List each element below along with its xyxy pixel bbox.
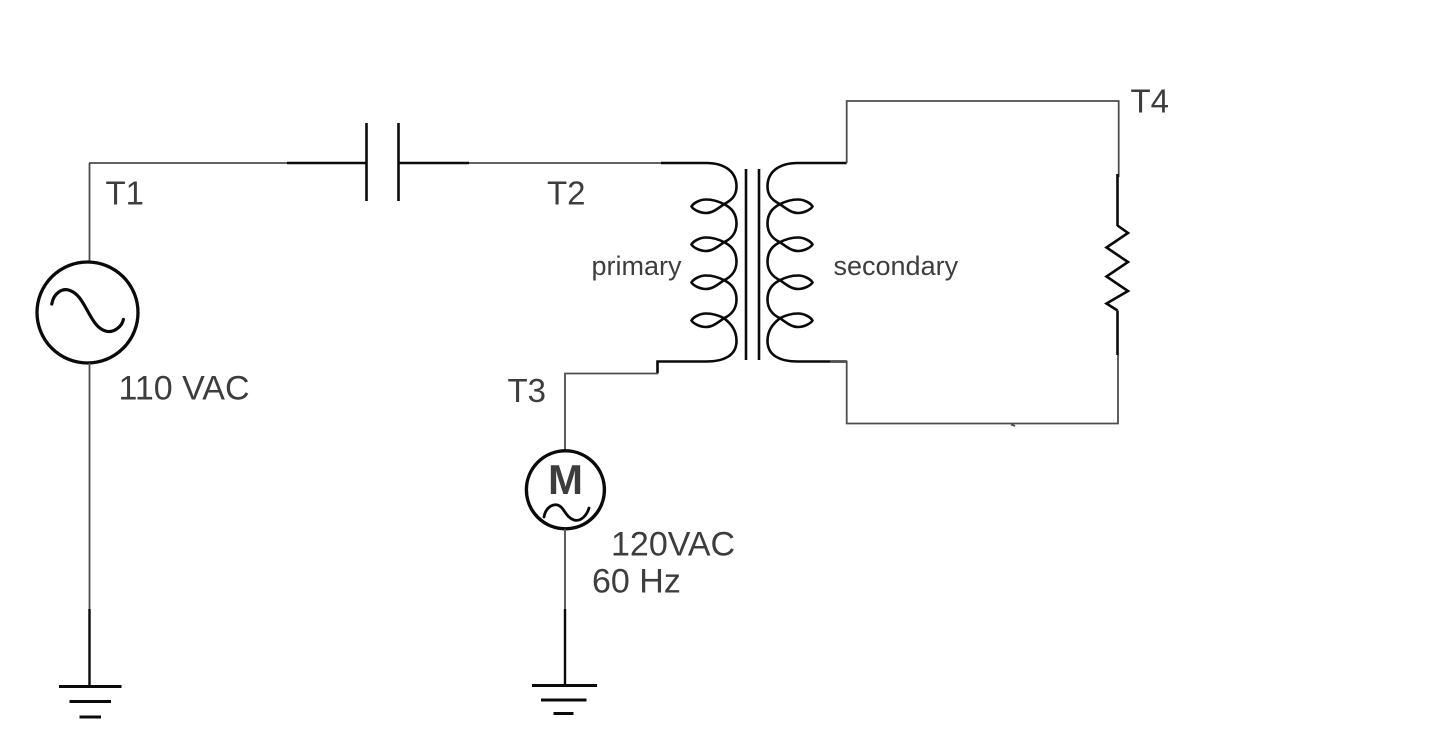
svg-text:primary: primary — [592, 251, 683, 281]
svg-text:T2: T2 — [547, 175, 586, 212]
capacitor C1 right lead — [399, 162, 470, 164]
resistor load zigzag — [1107, 226, 1129, 311]
motor M1 sine — [544, 505, 589, 521]
svg-text:60 Hz: 60 Hz — [592, 563, 681, 601]
AC source V1 circle — [37, 262, 138, 363]
svg-text:secondary: secondary — [834, 251, 959, 281]
transformer primary winding — [658, 163, 737, 374]
wire ground lead left — [88, 609, 90, 687]
wire motor bottom — [564, 529, 566, 610]
wire source bottom — [89, 363, 91, 610]
AC source sine wave — [52, 290, 124, 332]
wire resistor bottom loop back to secondary — [830, 355, 1118, 424]
transformer core line 2 — [758, 169, 761, 360]
resistor load bottom lead — [1116, 311, 1119, 356]
ground GND1 — [59, 687, 122, 718]
motor M1 circle — [526, 451, 604, 529]
wire T1 vertical (source top to top rail) — [89, 163, 91, 262]
junction tick on bottom wire — [1011, 425, 1015, 427]
svg-text:T4: T4 — [1131, 83, 1170, 120]
svg-text:110 VAC: 110 VAC — [119, 370, 250, 408]
wire top rail T1 to capacitor — [89, 162, 288, 164]
wire secondary top to T4 corner — [847, 101, 1119, 177]
wire capacitor to T2/transformer — [469, 162, 661, 164]
capacitor C1 left lead — [287, 162, 367, 164]
svg-text:T3: T3 — [508, 372, 547, 409]
svg-text:120VAC: 120VAC — [611, 526, 735, 564]
capacitor C1 left plate — [365, 123, 368, 201]
wire primary bottom to T3 — [565, 374, 658, 451]
ground GND2 — [532, 686, 597, 714]
wire ground lead motor — [564, 609, 566, 686]
transformer core line 1 — [745, 169, 748, 360]
capacitor C1 right plate — [397, 123, 400, 201]
svg-text:M: M — [548, 456, 583, 503]
resistor load top lead — [1116, 174, 1119, 226]
transformer secondary winding — [768, 163, 847, 362]
svg-text:T1: T1 — [106, 174, 145, 211]
